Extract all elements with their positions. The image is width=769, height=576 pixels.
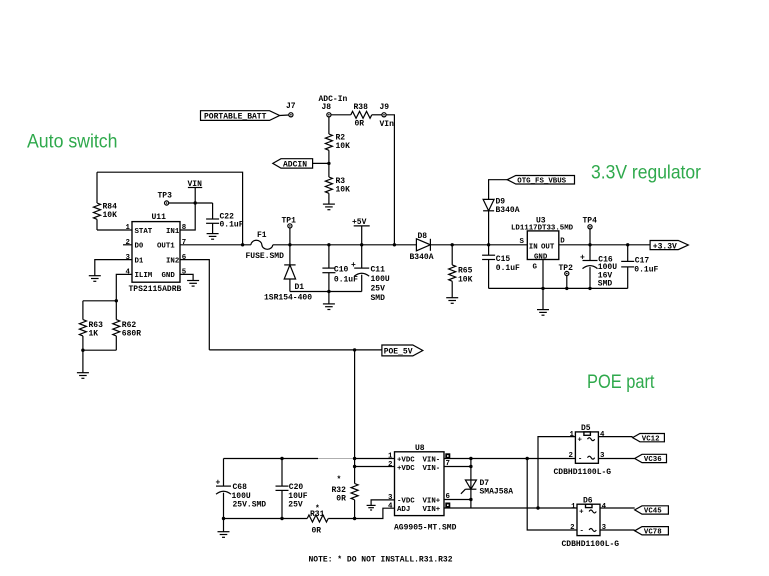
- svg-text:VC78: VC78: [644, 528, 662, 536]
- svg-text:CDBHD1100L-G: CDBHD1100L-G: [554, 468, 612, 477]
- node C10 bottom: [327, 290, 330, 293]
- node GND junction: [541, 287, 544, 290]
- svg-text:4: 4: [602, 503, 607, 511]
- wire OUT1 to fuse: [180, 244, 251, 246]
- wire D8 to U3: [430, 244, 527, 246]
- svg-text:VIN-: VIN-: [423, 456, 441, 464]
- wire bottom rail D1-C11: [290, 291, 362, 293]
- svg-text:1: 1: [570, 431, 575, 439]
- svg-text:VC36: VC36: [644, 456, 662, 464]
- wire D6 pin4 to VC45: [600, 507, 635, 509]
- diode D7 SMAJ58A tvs: [461, 479, 513, 497]
- svg-text:AG9905-MT.SMD: AG9905-MT.SMD: [394, 523, 457, 532]
- wire R31 to ADJ corner: [328, 508, 394, 518]
- svg-text:10K: 10K: [103, 211, 118, 220]
- svg-text:-VDC: -VDC: [397, 498, 415, 506]
- node pin1 junction: [353, 457, 356, 460]
- svg-text:1: 1: [388, 453, 393, 461]
- resistor R84: [94, 172, 118, 230]
- svg-text:25V.SMD: 25V.SMD: [233, 500, 267, 509]
- svg-text:10K: 10K: [336, 142, 351, 151]
- capacitor C11 electrolytic: [351, 245, 390, 303]
- capacitor C68 electrolytic: [216, 459, 267, 519]
- wire D9 to rail: [488, 211, 490, 245]
- U11 pin texts: [135, 228, 180, 280]
- ground under R63: [77, 373, 89, 379]
- svg-text:1SR154-400: 1SR154-400: [264, 294, 312, 303]
- wire bottom rail C68 to R31: [224, 518, 308, 520]
- svg-text:D0: D0: [135, 243, 144, 251]
- wire pin3 to ground: [371, 500, 394, 506]
- svg-text:4: 4: [126, 269, 131, 277]
- wire TP3 to C22: [169, 202, 213, 204]
- wire pin5 GND to ground: [180, 274, 193, 280]
- svg-text:POE part: POE part: [587, 371, 655, 393]
- power VIN: [188, 180, 203, 203]
- node C20 top junction: [280, 457, 283, 460]
- svg-text:-: -: [580, 528, 584, 536]
- ground under U3: [537, 310, 549, 316]
- wire J8 to R38: [331, 114, 351, 116]
- testpoint TP1: [282, 217, 297, 228]
- capacitor C20: [276, 459, 308, 519]
- bridge D5 CDBHD1100L-G: [554, 424, 612, 477]
- net flag PORTABLE_BATT: [201, 111, 280, 122]
- wire pin6 IN2 to POE rail: [180, 260, 209, 350]
- svg-text:TP3: TP3: [158, 192, 173, 201]
- svg-text:J7: J7: [286, 102, 296, 111]
- net flag VC78: [635, 527, 669, 537]
- svg-text:0R: 0R: [312, 527, 322, 536]
- wire pin7 stub: [444, 466, 471, 468]
- svg-text:VIn: VIn: [380, 120, 395, 129]
- diode D9 B340A: [483, 198, 520, 216]
- node ILIM junction: [115, 299, 118, 302]
- svg-text:2: 2: [570, 524, 574, 532]
- svg-text:VIN+: VIN+: [423, 506, 441, 514]
- svg-text:2: 2: [126, 239, 130, 247]
- svg-text:C68: C68: [233, 483, 248, 492]
- svg-text:G: G: [533, 264, 538, 272]
- svg-text:7: 7: [182, 239, 186, 247]
- svg-text:VIN+: VIN+: [423, 498, 441, 506]
- svg-text:VC12: VC12: [642, 435, 660, 443]
- svg-text:D: D: [560, 237, 565, 245]
- svg-text:0.1uF: 0.1uF: [496, 264, 520, 273]
- node VIN junction: [194, 201, 197, 204]
- net flag OTG_FS_VBUS: [507, 176, 574, 186]
- node J9 rail junction: [393, 243, 396, 246]
- svg-text:0.1uF: 0.1uF: [220, 221, 244, 230]
- svg-text:SMD: SMD: [598, 279, 613, 288]
- svg-text:R65: R65: [458, 266, 473, 275]
- svg-text:C10: C10: [334, 265, 349, 274]
- ground under R3: [323, 204, 335, 210]
- node TP1 junction: [288, 243, 291, 246]
- wire R38 to J9: [372, 114, 382, 116]
- ground pin3: [367, 505, 376, 510]
- diode D8 B340A: [410, 232, 434, 262]
- wire pin2 stub: [123, 244, 132, 246]
- wire TP2 down: [566, 276, 568, 289]
- node POE branch junction: [353, 348, 356, 351]
- capacitor C17: [621, 245, 658, 289]
- capacitor C16 electrolytic: [580, 245, 617, 289]
- wire D5 pin1 to VIN+: [538, 437, 575, 508]
- capacitor C15: [482, 245, 520, 289]
- svg-text:R38: R38: [354, 103, 369, 112]
- node D6 branch on VIN- rail: [526, 457, 529, 460]
- node bottom junction: [81, 349, 84, 352]
- wire U3 OUT to +3.3V flag: [559, 244, 650, 246]
- resistor R62: [113, 301, 141, 350]
- svg-text:GND: GND: [534, 253, 548, 261]
- svg-text:STAT: STAT: [135, 228, 153, 236]
- wire D6 pin3 to VC78: [600, 529, 635, 531]
- svg-text:OTG_FS_VBUS: OTG_FS_VBUS: [517, 177, 566, 185]
- wire flag to J7: [280, 114, 289, 117]
- wire regulator bottom rail: [489, 287, 628, 289]
- resistor R38: [351, 103, 372, 129]
- svg-text:D1: D1: [295, 283, 305, 292]
- U8 pin numbers: [388, 453, 451, 511]
- svg-text:5: 5: [182, 269, 187, 277]
- wire fuse to D8: [273, 244, 417, 246]
- capacitor C22: [206, 203, 244, 234]
- wire J9 down to +5V rail: [386, 115, 394, 245]
- svg-text:IN1: IN1: [166, 228, 180, 236]
- wire flag to D9: [489, 180, 508, 200]
- converter U8 AG9905-MT.SMD: [394, 444, 457, 532]
- svg-text:+: +: [580, 254, 585, 263]
- svg-text:6: 6: [182, 254, 187, 262]
- U8 pin texts: [397, 456, 441, 514]
- wire POE branch down: [354, 350, 356, 467]
- ground pin5: [187, 281, 199, 287]
- svg-text:+3.3V: +3.3V: [653, 242, 677, 251]
- svg-text:100U: 100U: [371, 275, 390, 284]
- node C17 top junction: [626, 243, 629, 246]
- connector J8: [322, 103, 332, 117]
- wire C10 ground stub: [328, 292, 330, 304]
- wire pin4 ILIM down: [116, 274, 132, 300]
- node D9/C15 junction: [487, 243, 490, 246]
- wire C68 ground stub: [223, 519, 225, 532]
- svg-text:3.3V regulator: 3.3V regulator: [591, 162, 701, 184]
- wire D7 vertical: [470, 459, 472, 509]
- svg-text:OUT: OUT: [541, 243, 555, 251]
- connector J9: [380, 103, 395, 129]
- wire R63/R62 bottom rail: [83, 350, 116, 373]
- svg-text:ADCIN: ADCIN: [283, 161, 307, 170]
- wire VIN+ rail to D6 pin1: [444, 507, 577, 509]
- resistor R32: [332, 467, 359, 519]
- svg-text:TPS2115ADRB: TPS2115ADRB: [129, 285, 182, 294]
- op-amp U11 TPS2115ADRB: [129, 213, 182, 294]
- svg-text:2: 2: [388, 461, 392, 469]
- ground under C22: [207, 234, 219, 240]
- testpoint TP3: [158, 192, 173, 206]
- svg-text:CDBHD1100L-G: CDBHD1100L-G: [562, 540, 620, 549]
- svg-text:3: 3: [602, 524, 607, 532]
- svg-text:Auto switch: Auto switch: [27, 131, 118, 153]
- svg-text:0.1uF: 0.1uF: [634, 265, 658, 274]
- svg-text:0R: 0R: [355, 119, 365, 128]
- net flag VC36: [635, 454, 667, 464]
- wire +VDC top rail black left: [224, 458, 319, 460]
- wire U3 GND pin: [542, 260, 544, 289]
- wire +VDC top rail grey: [318, 458, 355, 460]
- node C10 top: [327, 243, 330, 246]
- svg-text:D1: D1: [135, 257, 144, 265]
- wire D5 pin4 to VC12: [598, 436, 632, 438]
- wire R84 to pin1 STAT: [97, 229, 132, 231]
- U8 pin 8 marker: [445, 453, 450, 458]
- svg-text:B340A: B340A: [410, 253, 434, 262]
- testpoint TP4: [583, 217, 598, 229]
- svg-text:B340A: B340A: [496, 206, 520, 215]
- wire ADCIN to divider: [313, 162, 329, 164]
- node D7 pin6: [469, 498, 472, 501]
- net flag +3.3V: [650, 241, 688, 252]
- svg-text:VC45: VC45: [644, 508, 662, 516]
- svg-text:3: 3: [388, 494, 393, 502]
- wire GND stub down: [542, 288, 544, 309]
- svg-text:C15: C15: [496, 255, 511, 264]
- node junction top rail to OUT1: [241, 243, 244, 246]
- node D5 pin1 junction: [536, 506, 539, 509]
- node C20 bottom junction: [280, 517, 283, 520]
- svg-text:+VDC: +VDC: [397, 465, 415, 473]
- ground pin3: [89, 276, 101, 282]
- power +5V: [352, 218, 370, 245]
- svg-text:4: 4: [600, 431, 605, 439]
- node D7 top: [469, 457, 472, 460]
- diode D1 1SR154-400: [264, 245, 312, 303]
- resistor R3: [325, 163, 350, 204]
- wire VIN- rail to D5 pin2: [444, 458, 575, 460]
- net flag POE_5V: [382, 345, 423, 357]
- bridge D6 CDBHD1100L-G: [562, 496, 620, 549]
- svg-text:NOTE: * DO NOT INSTALL.R31.R32: NOTE: * DO NOT INSTALL.R31.R32: [309, 556, 453, 565]
- wire top feedback rail: [97, 172, 243, 245]
- svg-text:0.1uF: 0.1uF: [334, 275, 358, 284]
- svg-text:+: +: [579, 509, 584, 517]
- svg-text:-: -: [578, 455, 582, 463]
- svg-text:25V: 25V: [371, 284, 386, 293]
- node pin2 junction: [353, 465, 356, 468]
- svg-text:10K: 10K: [458, 275, 473, 284]
- ground under C68: [218, 532, 230, 538]
- svg-text:2: 2: [569, 452, 573, 460]
- svg-text:1: 1: [571, 503, 576, 511]
- svg-text:OUT1: OUT1: [157, 243, 175, 251]
- svg-text:C17: C17: [635, 256, 650, 265]
- net flag VC45: [635, 506, 669, 516]
- svg-text:ILIM: ILIM: [135, 272, 153, 280]
- resistor R65: [449, 245, 473, 298]
- testpoint TP2: [559, 264, 574, 276]
- svg-text:3: 3: [126, 254, 131, 262]
- wire TP4 down: [589, 229, 591, 245]
- svg-text:IN2: IN2: [166, 257, 179, 265]
- svg-text:1K: 1K: [89, 330, 99, 339]
- node C16 bottom junction: [588, 287, 591, 290]
- wire D5 pin3 to VC36: [598, 458, 634, 460]
- connector J7: [286, 102, 296, 117]
- capacitor C10: [322, 245, 358, 292]
- svg-text:SMAJ58A: SMAJ58A: [480, 488, 514, 497]
- svg-text:S: S: [520, 238, 525, 246]
- node C68 bottom junction: [222, 517, 225, 520]
- node R32 bottom junction: [353, 517, 356, 520]
- wire pin2 rail: [355, 466, 395, 468]
- wire TP1 down: [289, 228, 291, 245]
- node R65 junction: [451, 243, 454, 246]
- svg-text:680R: 680R: [122, 330, 141, 339]
- node divider junction: [327, 162, 330, 165]
- node TP2 junction: [565, 287, 568, 290]
- wire VIN- to D6 pin2: [527, 459, 577, 531]
- svg-text:FUSE.SMD: FUSE.SMD: [246, 252, 285, 261]
- svg-text:C20: C20: [289, 483, 304, 492]
- resistor R31: [307, 505, 328, 536]
- wire +VDC to pin1: [355, 458, 395, 460]
- svg-text:SMD: SMD: [371, 294, 386, 303]
- wire pin3 D1 to ground: [95, 260, 132, 276]
- resistor R63: [79, 301, 103, 350]
- svg-text:IN: IN: [529, 243, 538, 251]
- svg-text:POE_5V: POE_5V: [384, 348, 413, 357]
- fuse F1: [246, 231, 285, 261]
- node TP4 junction: [588, 243, 591, 246]
- svg-text:1: 1: [126, 224, 131, 232]
- node D7 pin7: [469, 465, 472, 468]
- svg-text:F1: F1: [257, 231, 267, 240]
- svg-text:GND: GND: [162, 272, 176, 280]
- svg-text:C11: C11: [371, 265, 386, 274]
- svg-text:PORTABLE_BATT: PORTABLE_BATT: [204, 113, 267, 122]
- svg-text:ADJ: ADJ: [397, 506, 410, 514]
- svg-text:+VDC: +VDC: [397, 456, 415, 464]
- svg-text:25V: 25V: [288, 500, 303, 509]
- svg-text:J9: J9: [380, 103, 390, 112]
- svg-text:4: 4: [388, 502, 393, 510]
- svg-text:*: *: [337, 476, 342, 485]
- net flag ADCIN: [273, 159, 313, 170]
- svg-text:U11: U11: [152, 213, 167, 222]
- wire R62/R63 top rail: [83, 300, 116, 302]
- U8 pin 5 marker: [445, 503, 450, 508]
- regulator U3 LD1117DT33.5MD: [511, 217, 574, 272]
- svg-text:0R: 0R: [336, 495, 346, 504]
- U11 pin numbers: [126, 224, 187, 276]
- wire pin6 stub: [444, 499, 471, 501]
- svg-text:+: +: [578, 436, 583, 444]
- svg-text:VIN-: VIN-: [423, 465, 441, 473]
- node +5V junction: [360, 243, 363, 246]
- svg-text:J8: J8: [322, 103, 332, 112]
- svg-text:10K: 10K: [336, 185, 351, 194]
- ground under C10: [323, 304, 335, 310]
- ground under R65: [446, 298, 458, 304]
- resistor R2: [325, 117, 350, 163]
- net flag VC12: [633, 434, 665, 444]
- svg-text:8: 8: [182, 224, 187, 232]
- wire VIN to pin8 IN1: [180, 203, 195, 230]
- wire POE_5V rail: [209, 349, 382, 351]
